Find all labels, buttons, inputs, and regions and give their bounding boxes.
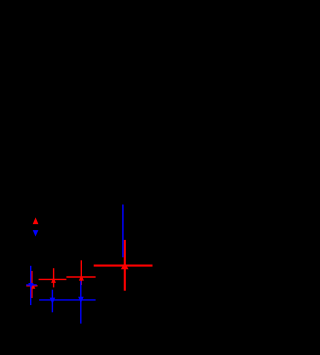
red point R3 marker up-triangle (79, 275, 84, 281)
blue point B1 marker down-triangle (28, 283, 33, 288)
red point R3 horizontal error bar (66, 276, 95, 278)
red point R1 horizontal error bar (26, 285, 37, 287)
blue points B2-B3 shared horizontal error bar (39, 299, 96, 301)
legend marker red up-triangle (33, 217, 39, 224)
red point R4 marker up-triangle (121, 263, 129, 270)
red point R4 horizontal error bar (94, 265, 153, 267)
blue point B2 vertical error bar (51, 290, 53, 313)
legend marker blue down-triangle (33, 230, 39, 236)
blue point B2 marker down-triangle (50, 298, 56, 304)
blue point B3 marker down-triangle (78, 297, 84, 303)
red point R1 vertical error bar (31, 271, 33, 298)
red point R4 vertical error bar (124, 240, 126, 291)
red point R3 vertical error bar (80, 260, 82, 285)
red point R2 vertical error bar (53, 268, 55, 287)
blue point B4 upper error bar only (122, 205, 124, 258)
red point R2 horizontal error bar (39, 278, 67, 280)
red point R1 marker up-triangle (30, 283, 35, 289)
blue point B1 horizontal error bar (26, 284, 37, 286)
red point R2 marker up-triangle (51, 277, 56, 283)
blue point B3 vertical error bar (80, 281, 82, 324)
blue point B1 vertical error bar (30, 266, 32, 305)
